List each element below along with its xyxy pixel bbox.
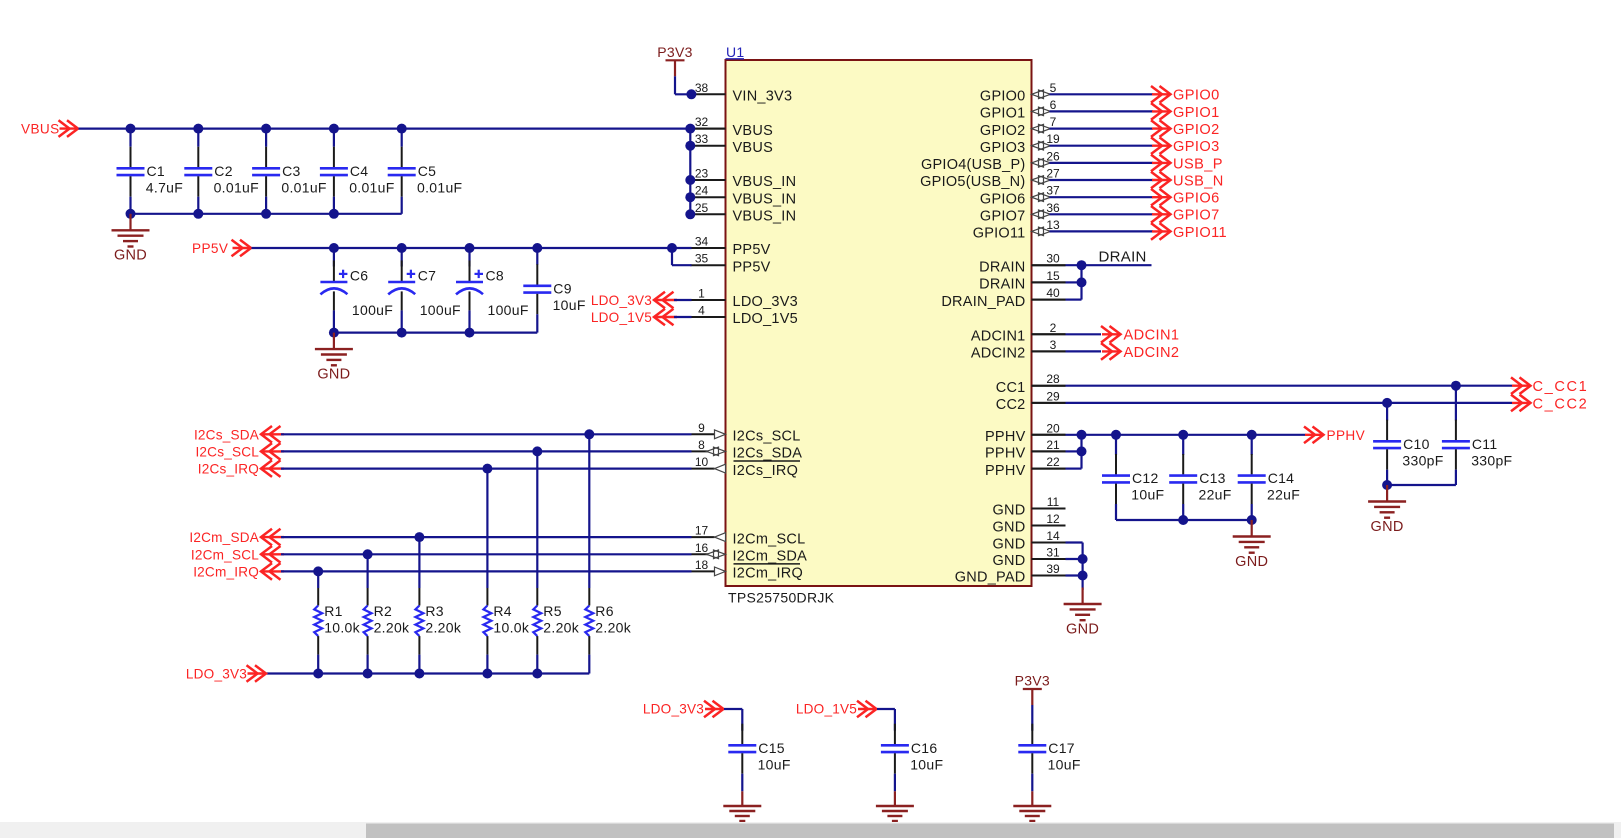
svg-text:GPIO5(USB_N): GPIO5(USB_N)	[920, 174, 1025, 190]
svg-text:1: 1	[698, 287, 705, 301]
svg-text:39: 39	[1046, 562, 1060, 576]
svg-text:4: 4	[698, 304, 705, 318]
svg-text:VBUS: VBUS	[733, 140, 774, 156]
svg-text:10.0k: 10.0k	[324, 620, 360, 636]
svg-text:10uF: 10uF	[1131, 487, 1164, 503]
svg-text:VBUS: VBUS	[21, 122, 60, 137]
svg-text:GPIO11: GPIO11	[1173, 225, 1227, 241]
svg-text:GPIO3: GPIO3	[980, 140, 1026, 156]
svg-text:10.0k: 10.0k	[493, 620, 529, 636]
svg-text:R1: R1	[324, 603, 343, 619]
svg-text:R2: R2	[374, 603, 393, 619]
svg-text:19: 19	[1046, 132, 1060, 146]
svg-text:28: 28	[1046, 372, 1060, 386]
svg-text:PP5V: PP5V	[733, 242, 771, 258]
svg-text:24: 24	[695, 184, 709, 198]
svg-text:13: 13	[1046, 218, 1060, 232]
svg-text:C1: C1	[147, 163, 166, 179]
svg-text:C11: C11	[1472, 436, 1498, 452]
svg-text:C15: C15	[758, 740, 785, 756]
svg-text:I2Cs_IRQ: I2Cs_IRQ	[733, 463, 799, 479]
svg-text:10uF: 10uF	[910, 756, 943, 772]
svg-text:16: 16	[695, 541, 709, 555]
svg-text:DRAIN: DRAIN	[979, 277, 1025, 293]
svg-text:R3: R3	[425, 603, 444, 619]
svg-text:4.7uF: 4.7uF	[146, 179, 183, 195]
svg-text:GND: GND	[993, 503, 1026, 519]
svg-text:GPIO6: GPIO6	[980, 191, 1026, 207]
svg-text:GPIO0: GPIO0	[980, 89, 1026, 105]
svg-text:5: 5	[1050, 81, 1057, 95]
svg-text:P3V3: P3V3	[1015, 673, 1050, 689]
svg-text:21: 21	[1046, 438, 1060, 452]
svg-text:330pF: 330pF	[1471, 452, 1512, 468]
svg-text:C13: C13	[1199, 470, 1226, 486]
svg-text:11: 11	[1047, 495, 1060, 509]
svg-text:29: 29	[1046, 389, 1060, 403]
svg-text:C14: C14	[1268, 470, 1295, 486]
svg-text:DRAIN: DRAIN	[1099, 249, 1147, 266]
svg-text:330pF: 330pF	[1402, 452, 1443, 468]
svg-text:CC2: CC2	[996, 397, 1026, 413]
svg-text:GND: GND	[1371, 519, 1404, 535]
svg-text:17: 17	[695, 524, 709, 538]
svg-text:15: 15	[1046, 269, 1060, 283]
svg-text:C12: C12	[1132, 470, 1159, 486]
svg-text:30: 30	[1046, 252, 1060, 266]
svg-text:I2Cs_SCL: I2Cs_SCL	[733, 429, 801, 445]
svg-text:8: 8	[698, 438, 705, 452]
svg-text:14: 14	[1046, 529, 1060, 543]
svg-text:100uF: 100uF	[488, 302, 529, 318]
svg-text:18: 18	[695, 558, 709, 572]
svg-text:23: 23	[695, 167, 709, 181]
svg-text:3: 3	[1050, 338, 1057, 352]
svg-text:I2Cm_SCL: I2Cm_SCL	[191, 547, 259, 562]
svg-text:25: 25	[695, 201, 709, 215]
svg-text:GND: GND	[1235, 554, 1268, 570]
svg-text:10uF: 10uF	[1048, 756, 1081, 772]
svg-text:C17: C17	[1048, 740, 1075, 756]
svg-text:C7: C7	[418, 267, 437, 283]
svg-text:33: 33	[695, 132, 709, 146]
svg-text:100uF: 100uF	[352, 302, 393, 318]
svg-text:22uF: 22uF	[1267, 487, 1300, 503]
svg-text:10: 10	[695, 455, 709, 469]
svg-text:LDO_1V5: LDO_1V5	[796, 702, 857, 717]
svg-text:GPIO2: GPIO2	[1173, 122, 1220, 138]
svg-text:GPIO0: GPIO0	[1173, 88, 1220, 104]
svg-text:32: 32	[695, 115, 709, 129]
svg-text:37: 37	[1046, 184, 1060, 198]
svg-text:0.01uF: 0.01uF	[214, 179, 259, 195]
svg-text:LDO_3V3: LDO_3V3	[733, 294, 798, 310]
svg-text:GND: GND	[993, 520, 1026, 536]
svg-text:C6: C6	[350, 267, 369, 283]
svg-text:I2Cm_SDA: I2Cm_SDA	[733, 549, 808, 565]
svg-text:GPIO7: GPIO7	[980, 209, 1026, 225]
svg-text:GND: GND	[114, 248, 147, 264]
svg-text:12: 12	[1046, 512, 1060, 526]
svg-text:GPIO11: GPIO11	[973, 226, 1026, 242]
svg-text:R5: R5	[543, 603, 562, 619]
svg-text:VBUS_IN: VBUS_IN	[733, 209, 797, 225]
svg-text:40: 40	[1046, 286, 1060, 300]
svg-text:GPIO6: GPIO6	[1173, 191, 1220, 207]
svg-text:35: 35	[695, 252, 709, 266]
svg-text:38: 38	[695, 81, 709, 95]
svg-text:C16: C16	[911, 740, 938, 756]
svg-text:LDO_3V3: LDO_3V3	[186, 667, 247, 682]
svg-text:2.20k: 2.20k	[425, 620, 461, 636]
svg-text:2: 2	[1050, 321, 1057, 335]
svg-text:27: 27	[1046, 167, 1060, 181]
svg-text:7: 7	[1050, 115, 1057, 129]
svg-text:LDO_1V5: LDO_1V5	[733, 311, 798, 327]
svg-text:CC1: CC1	[996, 380, 1026, 396]
svg-text:VBUS_IN: VBUS_IN	[733, 174, 797, 190]
svg-text:GND: GND	[317, 366, 350, 382]
svg-text:I2Cm_IRQ: I2Cm_IRQ	[193, 564, 259, 579]
svg-text:2.20k: 2.20k	[595, 620, 631, 636]
svg-text:I2Cs_SDA: I2Cs_SDA	[733, 446, 803, 462]
svg-text:GND: GND	[993, 553, 1026, 569]
svg-text:C10: C10	[1403, 436, 1430, 452]
svg-text:I2Cm_SCL: I2Cm_SCL	[733, 531, 806, 547]
svg-text:GND: GND	[1066, 621, 1099, 637]
svg-text:C4: C4	[350, 163, 369, 179]
svg-text:20: 20	[1046, 421, 1060, 435]
svg-text:DRAIN_PAD: DRAIN_PAD	[941, 294, 1025, 310]
svg-text:C8: C8	[486, 267, 505, 283]
svg-text:DRAIN: DRAIN	[979, 259, 1025, 275]
svg-text:USB_N: USB_N	[1173, 173, 1224, 189]
svg-text:2.20k: 2.20k	[374, 620, 410, 636]
svg-text:10uF: 10uF	[758, 756, 791, 772]
svg-text:VBUS_IN: VBUS_IN	[733, 191, 797, 207]
svg-text:PPHV: PPHV	[985, 463, 1026, 479]
svg-text:C_CC2: C_CC2	[1533, 396, 1589, 412]
svg-text:PP5V: PP5V	[192, 241, 228, 256]
svg-text:I2Cm_IRQ: I2Cm_IRQ	[733, 566, 804, 582]
svg-text:10uF: 10uF	[553, 297, 586, 313]
svg-text:C5: C5	[418, 163, 437, 179]
svg-text:GPIO1: GPIO1	[1173, 105, 1220, 121]
svg-text:22uF: 22uF	[1199, 487, 1232, 503]
svg-text:R4: R4	[493, 603, 512, 619]
svg-text:ADCIN1: ADCIN1	[971, 329, 1026, 345]
svg-text:USB_P: USB_P	[1173, 156, 1223, 172]
svg-text:P3V3: P3V3	[657, 44, 692, 60]
svg-text:36: 36	[1046, 201, 1060, 215]
svg-text:31: 31	[1046, 546, 1060, 560]
svg-text:C_CC1: C_CC1	[1533, 379, 1589, 395]
svg-text:I2Cs_IRQ: I2Cs_IRQ	[198, 462, 259, 477]
svg-text:ADCIN1: ADCIN1	[1124, 328, 1180, 344]
svg-text:GPIO3: GPIO3	[1173, 139, 1220, 155]
svg-text:GPIO4(USB_P): GPIO4(USB_P)	[921, 157, 1026, 173]
svg-text:C9: C9	[553, 280, 572, 296]
svg-text:PPHV: PPHV	[985, 446, 1026, 462]
svg-text:LDO_3V3: LDO_3V3	[643, 702, 704, 717]
svg-text:PP5V: PP5V	[733, 259, 771, 275]
svg-text:U1: U1	[726, 44, 745, 60]
svg-text:LDO_3V3: LDO_3V3	[591, 293, 652, 308]
svg-text:GND_PAD: GND_PAD	[955, 570, 1026, 586]
svg-text:LDO_1V5: LDO_1V5	[591, 310, 652, 325]
svg-text:R6: R6	[595, 603, 614, 619]
svg-text:0.01uF: 0.01uF	[417, 179, 462, 195]
svg-text:I2Cs_SCL: I2Cs_SCL	[195, 444, 259, 459]
svg-text:PPHV: PPHV	[1327, 428, 1366, 443]
svg-text:VIN_3V3: VIN_3V3	[733, 89, 793, 105]
svg-text:2.20k: 2.20k	[543, 620, 579, 636]
svg-text:0.01uF: 0.01uF	[349, 179, 394, 195]
svg-text:GPIO7: GPIO7	[1173, 208, 1220, 224]
svg-text:9: 9	[698, 421, 705, 435]
svg-text:ADCIN2: ADCIN2	[971, 346, 1026, 362]
svg-text:0.01uF: 0.01uF	[281, 179, 326, 195]
svg-text:ADCIN2: ADCIN2	[1124, 345, 1180, 361]
svg-text:VBUS: VBUS	[733, 123, 774, 139]
svg-text:I2Cs_SDA: I2Cs_SDA	[194, 427, 260, 442]
svg-text:GND: GND	[993, 537, 1026, 553]
svg-text:26: 26	[1046, 149, 1060, 163]
svg-text:TPS25750DRJK: TPS25750DRJK	[728, 590, 835, 606]
svg-text:GPIO1: GPIO1	[980, 106, 1026, 122]
svg-text:6: 6	[1050, 98, 1057, 112]
svg-text:C3: C3	[282, 163, 301, 179]
svg-text:C2: C2	[214, 163, 233, 179]
svg-text:34: 34	[695, 235, 709, 249]
svg-text:100uF: 100uF	[420, 302, 461, 318]
svg-text:PPHV: PPHV	[985, 429, 1026, 445]
svg-text:I2Cm_SDA: I2Cm_SDA	[189, 530, 259, 545]
svg-text:GPIO2: GPIO2	[980, 123, 1026, 139]
svg-text:22: 22	[1046, 455, 1060, 469]
